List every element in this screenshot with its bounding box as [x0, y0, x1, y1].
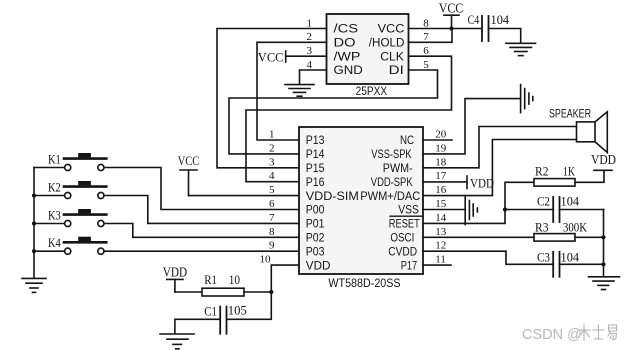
wire VDD to R1	[175, 291, 202, 293]
svg-text:CVDD: CVDD	[388, 244, 417, 258]
svg-text:PWM-: PWM-	[383, 161, 413, 175]
svg-text:7: 7	[423, 31, 429, 43]
wire RESET U2.14 to R2	[423, 182, 534, 223]
svg-text:VCC: VCC	[439, 0, 464, 15]
wire VCC U1.8 to C4	[409, 28, 483, 30]
ground at key rail	[22, 278, 46, 292]
resistor R3 300K	[534, 220, 588, 242]
wire DO U1.2 to P13 U2.1	[257, 42, 327, 140]
wire C1 to ground	[175, 319, 220, 333]
ground at C1	[160, 334, 194, 349]
capacitor C1 105	[204, 303, 247, 334]
junction dot RESET/C2	[503, 207, 507, 211]
wire K1 left to rail	[34, 167, 65, 169]
wire /CS U1.1 to P15 U2.3	[217, 29, 327, 168]
junction dot rail K3	[32, 221, 36, 225]
junction dot VCC/pin8	[449, 26, 453, 30]
svg-text:VCC: VCC	[178, 153, 199, 168]
junction dot R1/C1/VDD pin	[269, 290, 273, 294]
capacitor C3 104	[537, 250, 580, 277]
watermark glyph yi	[608, 325, 617, 340]
wire C2 left to RESET net	[505, 209, 553, 211]
pushbutton K4	[48, 236, 106, 254]
wire K3 to P02 U2.8	[104, 224, 299, 238]
U1 left pin numbers 1-4	[307, 17, 313, 71]
svg-text:RESET: RESET	[389, 217, 420, 231]
IC U1 25PXX body	[327, 14, 409, 84]
svg-text:104: 104	[561, 194, 580, 209]
wire right ground rail	[603, 210, 605, 277]
wire VSS stub U2.15	[423, 209, 465, 211]
svg-text:P02: P02	[306, 231, 325, 245]
wire R2 to VDD	[575, 170, 604, 182]
resistor R1 10	[202, 272, 244, 296]
wire DI U1.5 to P14 U2.2	[229, 70, 438, 154]
svg-text:OSCI: OSCI	[390, 231, 414, 245]
pushbutton K2	[48, 180, 106, 198]
power VDD symbol bottom left	[163, 265, 188, 292]
wire GND U1.4 down	[300, 70, 327, 84]
svg-text:P14: P14	[306, 147, 325, 161]
rotated ground at VSS-SPK	[521, 85, 533, 113]
wire PWM+/DAC U2.16 to speaker bottom	[423, 140, 577, 196]
svg-text:CLK: CLK	[380, 49, 404, 63]
svg-text:10: 10	[229, 272, 240, 287]
svg-text:VDD: VDD	[470, 176, 494, 191]
wire K4 to P03 U2.9	[104, 250, 299, 252]
wire R1 to junction	[244, 291, 271, 293]
svg-text:1: 1	[307, 17, 313, 29]
wire R3 right to rail	[575, 236, 604, 238]
wire CVDD U2.12 to C3	[423, 251, 553, 264]
watermark glyph shi	[593, 325, 604, 339]
wire VSS-SPK U2.19 to ground	[423, 99, 520, 154]
svg-text:VSS-SPK: VSS-SPK	[371, 147, 411, 161]
svg-text:SPEAKER: SPEAKER	[549, 106, 591, 120]
wire K1 to P00 U2.6	[104, 168, 299, 210]
junction dot rail K4	[32, 249, 36, 253]
svg-text:104: 104	[561, 250, 580, 265]
svg-text:P16: P16	[306, 175, 325, 189]
svg-text:DI: DI	[389, 63, 404, 77]
power VCC tap to VDD-SIM U2.5	[178, 153, 299, 196]
wire CLK U1.6 to P16 U2.4	[246, 56, 452, 182]
svg-text:R2: R2	[535, 164, 549, 179]
speaker SPEAKER	[549, 106, 607, 152]
wire /HOLD U1.7 to VCC	[409, 29, 453, 43]
rotated ground at VSS	[465, 196, 477, 225]
svg-text:13: 13	[435, 226, 447, 238]
wire C2 right to rail	[560, 209, 604, 211]
svg-text:K3: K3	[48, 208, 61, 222]
svg-text:9: 9	[269, 240, 275, 252]
wire K4 left to rail	[34, 250, 65, 252]
junction dot C3/rail	[601, 262, 605, 266]
svg-text:PWM+/DAC: PWM+/DAC	[360, 189, 420, 203]
svg-text:15: 15	[435, 198, 447, 210]
svg-text:P15: P15	[306, 161, 325, 175]
svg-text:3: 3	[269, 156, 275, 168]
wire K2 left to rail	[34, 195, 65, 197]
svg-text:K4: K4	[48, 236, 61, 250]
watermark CSDN	[522, 327, 582, 343]
ground at U1 GND	[285, 85, 314, 97]
wire K2 to P01 U2.7	[104, 196, 299, 224]
svg-text:C1: C1	[204, 304, 217, 319]
wire PWM- U2.18 to speaker top	[423, 127, 577, 168]
svg-text:14: 14	[435, 212, 447, 224]
svg-text:25PXX: 25PXX	[356, 84, 388, 98]
pushbutton K3	[48, 208, 106, 226]
svg-text:VCC: VCC	[258, 50, 284, 65]
svg-text:P17: P17	[401, 258, 418, 272]
IC U2 WT588D-20SS body	[299, 127, 423, 274]
svg-text:K1: K1	[48, 152, 61, 166]
power VCC symbol top	[439, 0, 464, 28]
svg-text:VCC: VCC	[378, 22, 405, 36]
svg-text:DO: DO	[334, 36, 356, 50]
svg-text:3: 3	[307, 45, 313, 57]
svg-text:105: 105	[228, 303, 247, 318]
svg-text:1K: 1K	[563, 164, 575, 179]
wire key ground rail	[33, 168, 35, 279]
wire junction to C1	[227, 292, 272, 319]
wire junction to VDD U2.10	[271, 265, 299, 292]
svg-text:CSDN @: CSDN @	[522, 327, 582, 343]
svg-text:17: 17	[435, 170, 447, 182]
U2 right pin numbers 20-11	[435, 129, 447, 266]
svg-text:4: 4	[307, 59, 313, 71]
svg-text:K2: K2	[48, 180, 61, 194]
svg-text:10: 10	[260, 254, 272, 266]
svg-text:19: 19	[435, 142, 447, 154]
power VCC tap at /WP U1.3	[258, 50, 327, 65]
svg-text:16: 16	[435, 184, 447, 196]
svg-text:R3: R3	[535, 220, 549, 235]
wire OSCI U2.13 to R3	[423, 236, 534, 238]
svg-text:P03: P03	[306, 244, 325, 258]
wire C3 right to rail	[560, 263, 604, 265]
svg-text:/WP: /WP	[334, 49, 361, 63]
power VDD symbol above R2	[591, 152, 616, 171]
svg-text:18: 18	[435, 156, 447, 168]
resistor R2 1K	[534, 164, 575, 187]
wire C4 to ground	[489, 29, 521, 44]
svg-text:11: 11	[435, 254, 446, 266]
svg-text:2: 2	[307, 31, 313, 43]
svg-text:8: 8	[269, 226, 275, 238]
svg-text:2: 2	[269, 142, 275, 154]
ground at C4	[506, 43, 536, 55]
svg-text:300K: 300K	[563, 220, 588, 235]
svg-text:VSS: VSS	[398, 203, 419, 217]
wire P17 stub U2.11	[423, 264, 451, 266]
svg-text:104: 104	[491, 12, 510, 27]
pushbutton K1	[48, 152, 106, 170]
svg-text:P01: P01	[306, 217, 325, 231]
svg-text:NC: NC	[400, 133, 414, 147]
svg-text:VDD: VDD	[163, 265, 188, 280]
svg-text:7: 7	[269, 212, 275, 224]
svg-text:P13: P13	[306, 133, 325, 147]
svg-text:5: 5	[269, 184, 275, 196]
svg-text:VDD: VDD	[306, 258, 331, 272]
svg-text:/HOLD: /HOLD	[369, 36, 405, 50]
svg-text:4: 4	[269, 170, 275, 182]
wire NC stub U2.20	[423, 139, 452, 141]
capacitor C4 104	[468, 12, 510, 41]
svg-text:6: 6	[423, 45, 429, 57]
svg-text:/CS: /CS	[334, 22, 359, 36]
junction dot R3/rail	[601, 235, 605, 239]
svg-text:C3: C3	[537, 250, 550, 265]
svg-text:VDD-SIM: VDD-SIM	[306, 189, 359, 203]
svg-text:P00: P00	[306, 203, 325, 217]
junction dot rail K2	[32, 193, 36, 197]
svg-text:20: 20	[435, 129, 447, 141]
svg-text:12: 12	[435, 240, 446, 252]
svg-text:C2: C2	[537, 194, 550, 209]
svg-text:8: 8	[423, 17, 429, 29]
wire K3 left to rail	[34, 223, 65, 225]
U2 left pin numbers 1-10	[260, 129, 276, 266]
svg-text:C4: C4	[468, 12, 480, 27]
svg-text:WT588D-20SS: WT588D-20SS	[328, 276, 400, 290]
capacitor C2 104	[537, 194, 580, 222]
U1 right pin numbers 8-5	[423, 17, 429, 71]
svg-text:GND: GND	[334, 63, 364, 77]
power VDD tap at VDD-SPK U2.17	[423, 176, 494, 191]
svg-text:R1: R1	[204, 272, 217, 287]
watermark glyph mu	[578, 325, 590, 340]
svg-text:VDD-SPK: VDD-SPK	[371, 175, 413, 189]
svg-text:5: 5	[423, 59, 429, 71]
svg-text:6: 6	[269, 198, 275, 210]
ground bottom right	[589, 277, 620, 290]
svg-text:VDD: VDD	[591, 152, 616, 167]
svg-text:1: 1	[269, 129, 275, 141]
